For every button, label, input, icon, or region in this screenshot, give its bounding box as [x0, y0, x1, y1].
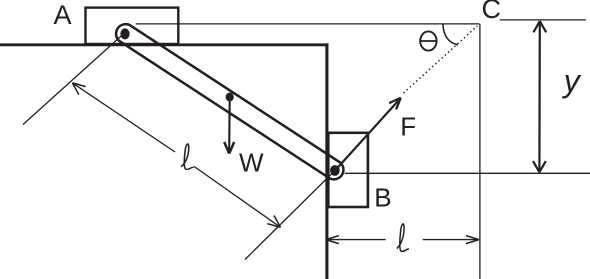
horizontal line at B level [345, 172, 590, 174]
pivot dot B [330, 165, 340, 176]
pivot dot A [120, 28, 129, 39]
rod length dimension line (lower segment) [194, 166, 281, 227]
block A [86, 8, 179, 44]
construction line at A level [136, 23, 480, 25]
dotted line B to C [404, 26, 478, 93]
y dimension arrow line [538, 21, 541, 172]
rod dimension arrowhead lower [267, 216, 280, 228]
ledge vertical edge [325, 43, 328, 279]
theta symbol [420, 31, 436, 50]
rod dimension arrowhead upper [72, 83, 85, 95]
svg-text:C: C [482, 0, 502, 24]
extension line from pivot B [245, 171, 335, 260]
block B [328, 133, 368, 207]
svg-text:F: F [400, 111, 416, 141]
y arrowhead top [533, 21, 546, 32]
rod AB (stadium outline) [116, 24, 343, 179]
F arrowhead [389, 98, 401, 110]
midpoint dot on rod [226, 93, 234, 102]
svg-text:W: W [239, 147, 264, 177]
weight arrow W line [228, 98, 231, 150]
vertical line below C [479, 24, 481, 279]
script ell label (rod length) [181, 144, 194, 169]
bottom dimension left arrowhead [326, 236, 339, 244]
bottom dimension line right segment [423, 239, 479, 241]
rod length dimension line (upper segment) [72, 83, 175, 152]
W arrowhead [224, 142, 234, 154]
angle arc theta [443, 24, 458, 45]
table surface line [0, 43, 328, 46]
script ell label (bottom) [397, 224, 409, 252]
svg-text:y: y [562, 63, 582, 99]
extension line from pivot A [23, 33, 125, 125]
svg-text:A: A [54, 0, 72, 30]
svg-text:B: B [374, 182, 391, 212]
top-right line beside C [500, 19, 586, 21]
force arrow F line [335, 101, 399, 171]
bottom dimension right arrowhead [466, 236, 479, 244]
y arrowhead bottom [533, 161, 546, 172]
bottom dimension line left segment [326, 239, 386, 241]
